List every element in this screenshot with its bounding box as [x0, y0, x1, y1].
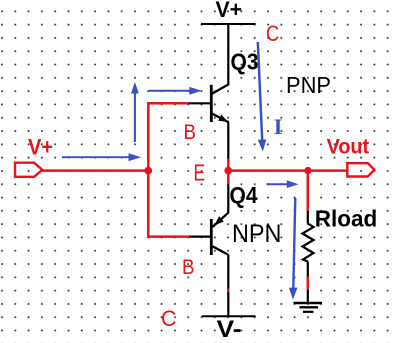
junction dot (output node E) [224, 167, 232, 175]
svg-text:Rload: Rload [315, 206, 378, 232]
wire: output node to Vout port [228, 169, 347, 172]
current label I (blue) [274, 114, 283, 139]
wire: Q4 emitter down to V- rail [227, 255, 229, 316]
svg-text:V+: V+ [28, 134, 53, 159]
current arrow down (through Rload, blue) [289, 198, 298, 300]
ground [294, 303, 323, 312]
svg-text:C: C [161, 306, 177, 331]
svg-text:V-: V- [217, 316, 242, 343]
svg-text:I: I [274, 114, 283, 139]
resistor Rload [303, 211, 314, 277]
ref label Q3 [231, 49, 259, 75]
port Vout (output) [347, 163, 374, 176]
current arrow right (Q3 base, blue) [149, 87, 202, 95]
svg-text:B: B [184, 120, 197, 144]
svg-text:Q4: Q4 [230, 182, 258, 208]
current arrow I (collector current, blue, long) [258, 42, 267, 152]
svg-text:C: C [266, 21, 279, 46]
port V+ (input) [15, 163, 42, 177]
wire: output node vertical segment (red) [227, 159, 230, 185]
wire: to ground (black) [307, 290, 309, 302]
current arrow (input, blue) [62, 153, 141, 161]
svg-text:E: E [194, 160, 206, 186]
net label V- [217, 316, 242, 343]
power rail V- [202, 315, 256, 317]
current arrow up (to Q3 base, blue) [131, 82, 139, 142]
transistor Q4 (NPN) [188, 212, 229, 255]
base label B (lower, red) [182, 255, 195, 279]
svg-text:V+: V+ [216, 0, 243, 22]
wire: junction up to Q3 base [148, 103, 188, 169]
svg-text:B: B [182, 255, 195, 279]
power rail V+ [201, 23, 256, 25]
node label C (red, top) [266, 21, 279, 46]
transistor Q3 (PNP) [188, 84, 229, 122]
junction dot (Rload branch) [304, 167, 311, 174]
wire: junction down to Q4 base [148, 171, 189, 237]
value label Rload [315, 206, 378, 232]
svg-text:Vout: Vout [327, 135, 370, 158]
base label B (upper, red) [184, 120, 197, 144]
emitter label E (red) [194, 160, 206, 186]
svg-text:NPN: NPN [232, 220, 282, 248]
current arrow right (to Rload, blue) [267, 180, 299, 188]
collector label C (lower, red) [161, 306, 177, 331]
svg-text:PNP: PNP [286, 72, 331, 98]
wire: V+ rail to Q3 emitter [227, 24, 229, 86]
wire: resistor to ground (red segment) [307, 277, 310, 291]
net label Vout [327, 135, 370, 158]
type label NPN [232, 220, 282, 248]
svg-text:Q3: Q3 [231, 49, 259, 75]
net label V+ (input, red) [28, 134, 53, 159]
junction dot (input node) [144, 167, 152, 175]
wire: input port to junction [42, 169, 148, 172]
ref label Q4 [230, 182, 258, 208]
wire: node down to Rload (red) [307, 171, 310, 211]
wire: output node down to Q4 (black) [227, 184, 229, 213]
type label PNP [286, 72, 331, 98]
net label V+ (top) [216, 0, 243, 22]
wire stub (red tick) on emitter line [227, 289, 229, 293]
wire: Q3 collector down to output node (black) [227, 122, 229, 159]
